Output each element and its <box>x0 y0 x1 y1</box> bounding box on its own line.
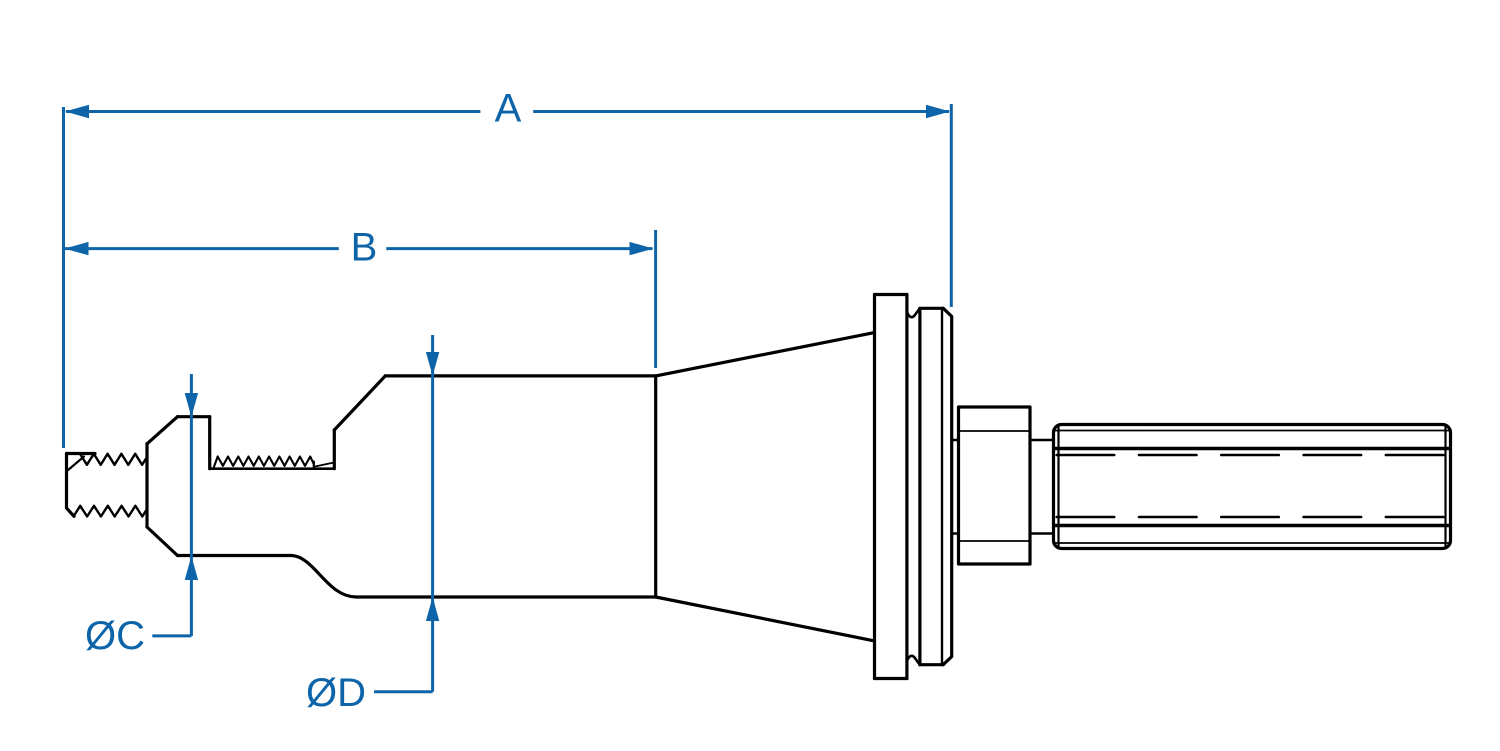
stud-to-cone face <box>145 444 148 527</box>
dimension C leader line <box>152 634 191 637</box>
svg-text:ØC: ØC <box>85 614 145 658</box>
flange top edge <box>875 293 907 296</box>
stud thread runout diagonal <box>68 457 85 471</box>
end cap chamfered face <box>943 308 952 664</box>
arrowhead C top <box>185 393 198 417</box>
shank top inner line <box>1055 430 1449 432</box>
dimension B line left segment <box>65 247 339 250</box>
arrowhead D top <box>426 352 439 376</box>
arrowhead A left <box>65 105 89 118</box>
block inner top line <box>959 430 1031 432</box>
thread runout diagonal <box>315 463 334 467</box>
ring bottom edge <box>920 663 943 666</box>
dimension D leader line <box>374 690 433 693</box>
arrowhead B left <box>65 242 89 255</box>
shank bottom inner line <box>1055 542 1449 544</box>
shank bottom band line <box>1054 524 1450 527</box>
shank left cap line <box>1057 426 1059 548</box>
stud top crest line <box>67 452 96 455</box>
neck left bottom line <box>952 532 959 535</box>
svg-text:A: A <box>495 87 522 131</box>
ring right inner face <box>941 308 943 664</box>
stud left face with bottom chamfer <box>67 454 75 517</box>
shank top band line <box>1054 447 1450 450</box>
flange bottom edge <box>875 677 907 680</box>
step face <box>333 430 336 469</box>
mid thread zigzag <box>214 457 314 468</box>
block inner bottom line <box>959 540 1031 542</box>
dimension group <box>64 104 952 692</box>
part outline group <box>67 295 1451 679</box>
body top edge <box>385 374 655 377</box>
taper cone bottom edge <box>656 597 875 641</box>
flange right face <box>905 295 908 679</box>
neck right bottom line <box>1030 532 1054 535</box>
arrowhead D bottom <box>426 597 439 621</box>
collar top edge <box>178 415 210 418</box>
left extension line <box>62 107 65 448</box>
body bottom edge <box>356 595 655 598</box>
dimension B line right segment <box>386 247 652 250</box>
thread root line <box>210 467 335 470</box>
flange left face <box>873 295 876 679</box>
taper cone top edge <box>656 333 875 376</box>
dimension A line right segment <box>533 110 949 113</box>
shank top dashed line <box>1057 454 1444 457</box>
top cone chamfer <box>147 417 178 444</box>
ring top edge <box>920 307 943 310</box>
block body <box>959 407 1031 564</box>
stud bottom thread zigzag <box>74 506 147 517</box>
neck right top line <box>1030 439 1054 442</box>
collar bottom edge <box>178 554 292 557</box>
bottom fillet curve <box>292 556 357 598</box>
svg-text:B: B <box>351 226 378 270</box>
bottom cone chamfer <box>147 527 178 556</box>
arrowhead B right <box>630 242 654 255</box>
shank outline <box>1054 425 1451 549</box>
chamfer to body <box>334 376 385 430</box>
shank bottom dashed line <box>1057 516 1444 519</box>
dimension A right extension line <box>950 104 953 307</box>
body right face <box>654 376 657 597</box>
dimension A line left segment <box>66 110 480 113</box>
thread runout tick <box>313 462 315 469</box>
arrowhead A right <box>926 105 950 118</box>
dimension D vertical line <box>431 335 434 692</box>
ring left face <box>918 308 921 664</box>
arrowhead C bottom <box>185 556 198 580</box>
dimension C vertical line <box>190 374 193 636</box>
groove top notch <box>907 308 920 317</box>
neck left top line <box>952 439 959 442</box>
groove bottom notch <box>907 656 920 665</box>
svg-text:ØD: ØD <box>306 671 366 715</box>
stud top thread zigzag <box>80 454 147 465</box>
collar right step face <box>208 417 211 469</box>
shank right cap line <box>1444 426 1446 548</box>
dimension B right extension line <box>654 230 657 368</box>
